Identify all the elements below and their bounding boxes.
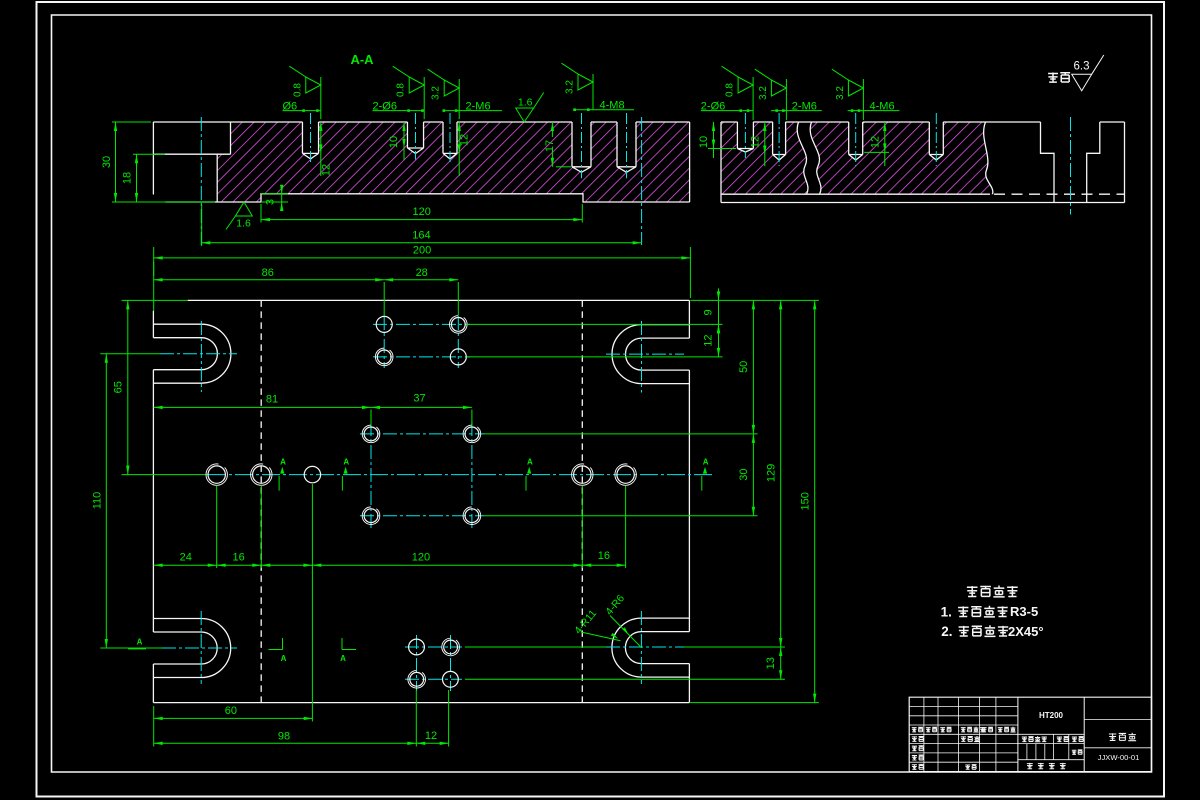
svg-text:37: 37 <box>413 393 425 405</box>
hole 2-M6 right section <box>773 122 786 160</box>
hole M8 plan #1 <box>208 466 225 483</box>
svg-text:81: 81 <box>266 393 278 405</box>
dim 86 <box>154 279 385 281</box>
bottom cluster hole O6 TL <box>409 639 425 655</box>
section A-A slot step line <box>153 122 230 202</box>
svg-text:50: 50 <box>738 361 750 373</box>
dim 10 right <box>713 122 715 158</box>
middle cluster hole M6 #3 <box>364 509 378 523</box>
plan right edge <box>688 300 690 702</box>
svg-text:150: 150 <box>799 492 811 510</box>
dim 65 left <box>127 300 129 474</box>
right section hatch area A <box>721 122 808 194</box>
svg-text:13: 13 <box>765 657 777 669</box>
section A-A top edge <box>153 121 689 123</box>
roughness 3.2 right #1 <box>785 79 787 120</box>
right section hatch area B <box>810 122 993 194</box>
center row green extension left <box>122 474 210 476</box>
U-slot bottom-left inner <box>153 632 217 664</box>
dim 9 <box>718 300 720 324</box>
dim 17 depth 4-M8 <box>551 122 553 137</box>
dim 3 extension <box>261 193 288 195</box>
plan top edge green ext right <box>690 299 819 301</box>
hidden line x=582.3 <box>581 300 583 702</box>
middle cluster hole M6 #1 <box>364 427 378 441</box>
roughness 0.8 above 2-O6 <box>423 77 425 119</box>
roughness 3.2 above 4-M8 <box>592 74 594 110</box>
tech req line 2 cjk <box>959 626 969 636</box>
middle cluster hole M6 #2 <box>465 427 479 441</box>
bottom cluster hole M6 BL <box>410 672 424 686</box>
svg-text:A: A <box>137 638 143 647</box>
tech req line 1 cjk <box>958 606 968 616</box>
hole 4-M8 section #1 <box>572 122 591 172</box>
svg-text:200: 200 <box>413 245 431 257</box>
roughness 3.2 right #2 <box>862 79 864 120</box>
dim 12 right plan <box>718 324 720 357</box>
svg-text:16: 16 <box>598 550 610 562</box>
svg-text:JJXW-00-01: JJXW-00-01 <box>1098 753 1140 762</box>
dim 50 <box>752 300 754 434</box>
upper cluster hole M6 BL <box>377 350 391 364</box>
right section left edge <box>720 122 722 203</box>
hole M8 plan #4 <box>617 466 634 483</box>
svg-text:3.2: 3.2 <box>758 86 769 100</box>
slot TR centerlines <box>606 353 684 355</box>
section A-A right edge <box>689 122 691 202</box>
svg-text:A-A: A-A <box>350 52 374 67</box>
projection centerline x=201 <box>200 117 202 245</box>
dim 24 <box>154 564 217 566</box>
dim 37 <box>371 406 472 408</box>
roughness 1.6 on bottom surface <box>235 202 252 216</box>
dim 13 <box>780 647 782 679</box>
svg-text:12: 12 <box>749 136 761 148</box>
dim 12 right #1 <box>764 122 766 166</box>
dim 129-13 right ext <box>465 646 606 648</box>
svg-text:12: 12 <box>702 334 714 346</box>
U-slot top-left outer <box>153 324 231 383</box>
roughness 0.8 right <box>752 77 754 120</box>
title block stage mark label <box>1022 736 1027 741</box>
dim 200 extensions <box>153 247 155 311</box>
svg-text:A: A <box>343 458 349 467</box>
roughness 0.8 above O6 <box>320 77 322 119</box>
hole 2-O6 section (left view) <box>407 122 423 154</box>
roughness 3.2 above 2-M6 <box>458 79 460 119</box>
dim 120 plan <box>312 564 582 566</box>
middle cluster centerlines <box>360 433 484 435</box>
svg-text:1.: 1. <box>941 605 952 620</box>
svg-text:164: 164 <box>412 230 430 242</box>
title block rel label <box>1072 750 1077 755</box>
svg-text:1.6: 1.6 <box>518 97 533 109</box>
hole 2-M6 section (left view) <box>443 122 457 159</box>
dim 10 depth 2-O6 <box>403 122 405 160</box>
svg-text:3: 3 <box>265 199 277 205</box>
dim 200 (overall) <box>154 257 691 259</box>
hole M8 plan #2 <box>253 466 270 483</box>
svg-text:24: 24 <box>180 551 192 563</box>
general roughness symbol <box>1072 74 1092 91</box>
svg-text:110: 110 <box>91 492 103 510</box>
svg-text:12: 12 <box>459 134 471 146</box>
section mark A bottom #2 <box>341 638 343 650</box>
dim row 565 ext verticals <box>216 486 218 568</box>
hole M8 plan #3 <box>574 466 591 483</box>
hole O8 plan <box>304 466 320 482</box>
svg-text:2X45°: 2X45° <box>1008 624 1044 639</box>
upper cluster hole M6 TR <box>451 318 465 332</box>
title block row5 col4 label <box>961 736 966 741</box>
dim 12 right #2 <box>884 122 886 166</box>
upper cluster hole O6 BR <box>450 349 466 365</box>
general roughness note QiYu <box>1048 72 1058 82</box>
svg-text:60: 60 <box>225 705 237 717</box>
dim 30 extension lines <box>112 121 151 123</box>
middle cluster hole M6 #4 <box>465 509 479 523</box>
hole 4-M6 right section #2 <box>929 122 943 160</box>
dim 120 extensions <box>260 204 262 223</box>
hidden line x=261 <box>260 300 262 702</box>
dim 18 extension line <box>133 153 165 155</box>
svg-text:A: A <box>703 458 709 467</box>
slot TL centerlines <box>160 353 237 355</box>
title block scale label <box>1072 736 1077 741</box>
svg-text:0.8: 0.8 <box>396 83 407 97</box>
svg-text:120: 120 <box>412 206 430 218</box>
right section recess surface line <box>721 193 990 195</box>
dim 110 left <box>105 354 107 648</box>
right section break line 1 left <box>797 122 808 194</box>
dim 3 <box>281 186 283 210</box>
svg-text:1.6: 1.6 <box>236 218 251 230</box>
section A-A left edge <box>152 122 154 195</box>
svg-text:65: 65 <box>112 381 124 393</box>
dim 9-12 right ext <box>467 323 723 325</box>
svg-text:98: 98 <box>278 730 290 742</box>
U-slot bottom-left outer <box>153 619 230 678</box>
title block part name <box>1109 733 1116 740</box>
svg-text:3.2: 3.2 <box>431 86 442 100</box>
svg-text:A: A <box>280 458 286 467</box>
hole 4-M8 section #2 <box>617 122 636 172</box>
title block grid <box>909 697 1151 771</box>
title block sheet labels <box>1027 763 1033 769</box>
title block row8 col4 label <box>965 764 970 769</box>
dim 164 extension <box>201 205 203 246</box>
dim 12 depth O6 <box>320 122 322 176</box>
U-slot bottom-right outer <box>612 618 690 677</box>
U-slot bottom-right inner <box>625 632 689 664</box>
center row centerline <box>208 474 714 476</box>
section A-A hatch area <box>217 122 689 202</box>
svg-text:HT200: HT200 <box>1039 711 1064 720</box>
svg-text:A: A <box>281 654 287 663</box>
T-slot centerline <box>1070 117 1072 215</box>
right section break line 1 right <box>810 122 821 194</box>
hole O6 section (left view) <box>302 122 318 159</box>
dim 110 ext <box>100 353 160 355</box>
bottom cluster hole M6 TR <box>444 640 458 654</box>
plan left edge <box>152 311 154 703</box>
T-slot outline <box>1041 122 1100 203</box>
svg-text:R3-5: R3-5 <box>1010 604 1038 619</box>
dim 30 right <box>752 434 754 516</box>
roughness 1.6 on top surface <box>516 108 534 122</box>
plan bottom edge <box>153 702 689 704</box>
slot BL centerlines <box>162 647 237 649</box>
svg-text:28: 28 <box>416 267 428 279</box>
dim 98 <box>154 742 417 744</box>
bottom cluster hole O6 BR <box>443 671 459 687</box>
svg-text:12: 12 <box>321 164 333 176</box>
svg-text:A: A <box>527 458 533 467</box>
dim 150 ext bottom <box>690 702 819 704</box>
dim 81 <box>154 406 371 408</box>
dim 28 <box>384 279 458 281</box>
svg-text:18: 18 <box>122 172 134 184</box>
svg-text:16: 16 <box>232 551 244 563</box>
svg-text:2.: 2. <box>941 624 952 639</box>
dim unlabeled <box>261 564 312 566</box>
dim 30 <box>115 122 117 202</box>
svg-text:17: 17 <box>544 140 556 152</box>
right section right edge <box>1124 122 1126 203</box>
svg-text:30: 30 <box>738 468 750 480</box>
hole 4-M6 right section #1 <box>849 122 863 160</box>
dim 129 <box>780 300 782 647</box>
section mark A bottom #1 <box>282 638 284 650</box>
right section break line 2 <box>984 122 993 194</box>
dim 50-30 right ext <box>484 433 758 435</box>
hole 2-O6 right section <box>737 122 753 152</box>
svg-text:9: 9 <box>703 309 715 315</box>
svg-text:30: 30 <box>101 156 113 168</box>
title block header labels <box>912 727 917 732</box>
title block left column labels <box>912 736 917 741</box>
dim 120 (recess width) <box>261 219 582 221</box>
U-slot top-right outer <box>612 325 689 384</box>
dim 16 b <box>582 564 625 566</box>
U-slot top-right inner <box>626 338 690 370</box>
right section top edge <box>721 121 1125 123</box>
plan top edge <box>188 299 690 301</box>
dim 18 <box>136 154 138 202</box>
right section bottom edge <box>721 202 1125 204</box>
svg-text:6.3: 6.3 <box>1074 60 1090 72</box>
dim 60 ext <box>153 706 155 747</box>
dim 86-28 ext verticals <box>153 262 155 276</box>
svg-text:0.8: 0.8 <box>292 83 303 97</box>
projection centerline x=641.6 <box>641 117 643 245</box>
right section hidden recess line (dashed) <box>994 193 1125 195</box>
upper cluster hole O6 TL <box>376 316 392 332</box>
svg-text:3.2: 3.2 <box>835 86 846 100</box>
svg-text:12: 12 <box>869 136 881 148</box>
svg-text:3.2: 3.2 <box>565 80 576 94</box>
svg-text:12: 12 <box>425 730 437 742</box>
slot BR centerlines <box>606 646 684 648</box>
U-slot top-left inner <box>153 338 217 370</box>
dim 16 a <box>217 564 262 566</box>
upper cluster centerlines <box>373 323 470 325</box>
dim 81-37 ext verticals <box>370 410 372 426</box>
dim 98-12 ext <box>415 690 417 747</box>
svg-text:86: 86 <box>262 267 274 279</box>
bottom cluster centerlines <box>405 646 462 648</box>
svg-text:0.8: 0.8 <box>725 83 736 97</box>
svg-text:10: 10 <box>698 136 710 148</box>
svg-text:A: A <box>340 654 346 663</box>
dim 60 <box>154 717 313 719</box>
plan top edge green ext left <box>122 299 189 301</box>
svg-text:120: 120 <box>412 551 430 563</box>
tech requirements title <box>967 586 978 597</box>
dim 12 bottom <box>416 742 448 744</box>
title block weight label <box>1057 736 1062 741</box>
dim 164 (slot centers) <box>201 242 641 244</box>
svg-text:129: 129 <box>766 464 778 482</box>
section A-A bottom edge with recess <box>166 194 690 202</box>
svg-text:10: 10 <box>388 136 400 148</box>
dim 150 <box>814 300 816 702</box>
dim 12 depth 2-M6 <box>458 122 460 176</box>
